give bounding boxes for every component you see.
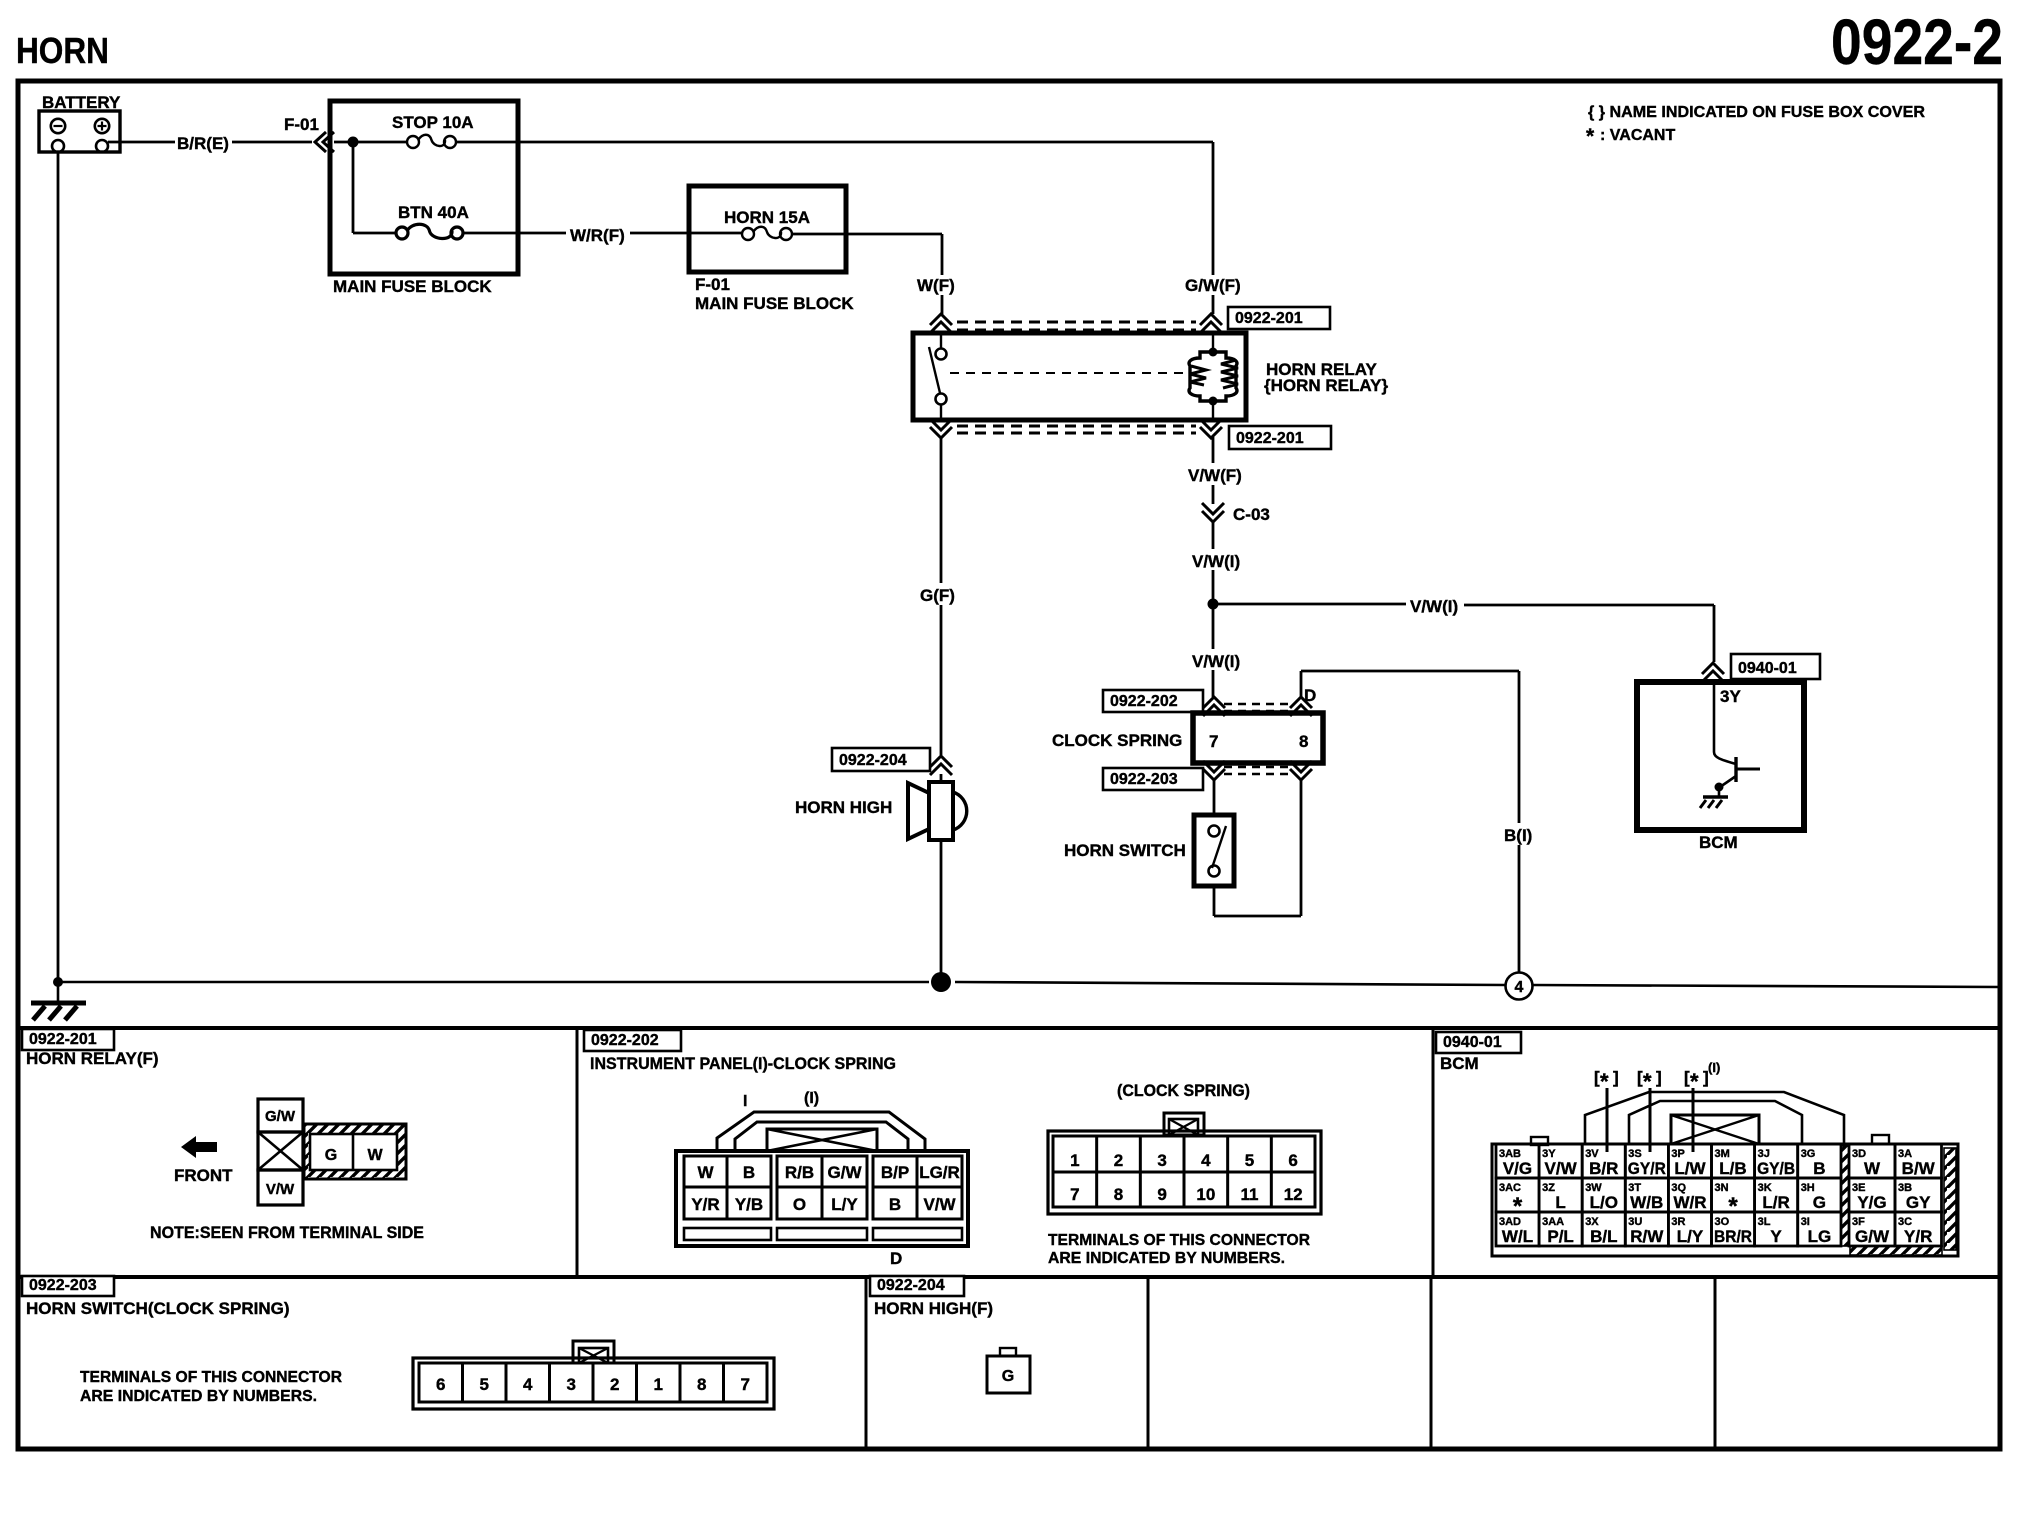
svg-text:MAIN FUSE BLOCK: MAIN FUSE BLOCK [333, 277, 492, 296]
svg-text:3Y: 3Y [1720, 687, 1741, 706]
svg-text:Y/R: Y/R [1904, 1227, 1932, 1246]
svg-text:(I): (I) [1708, 1060, 1720, 1075]
svg-text:CLOCK SPRING: CLOCK SPRING [1052, 731, 1182, 750]
svg-text:INSTRUMENT PANEL(I)-CLOCK SPRI: INSTRUMENT PANEL(I)-CLOCK SPRING [590, 1054, 896, 1073]
svg-text:V/G: V/G [1503, 1159, 1532, 1178]
svg-text:Y: Y [1770, 1227, 1782, 1246]
svg-text:W/B: W/B [1630, 1193, 1663, 1212]
svg-text:B/R: B/R [1589, 1159, 1618, 1178]
svg-text:B(I): B(I) [1504, 826, 1532, 845]
svg-text:10: 10 [1196, 1185, 1215, 1204]
svg-text:L/O: L/O [1590, 1193, 1618, 1212]
svg-text:1: 1 [1070, 1151, 1079, 1170]
svg-text:G/W: G/W [265, 1108, 296, 1125]
svg-text:0922-203: 0922-203 [1110, 771, 1178, 788]
svg-text:6: 6 [1288, 1151, 1297, 1170]
svg-text:I: I [743, 1093, 747, 1110]
svg-text:B: B [889, 1195, 901, 1214]
svg-text:W(F): W(F) [917, 276, 955, 295]
svg-text:0922-202: 0922-202 [591, 1032, 659, 1049]
svg-text:4: 4 [1201, 1151, 1211, 1170]
svg-text:B: B [743, 1163, 755, 1182]
svg-text:HORN RELAY(F): HORN RELAY(F) [26, 1049, 159, 1068]
svg-text:V/W: V/W [1545, 1159, 1578, 1178]
svg-text:]: ] [1613, 1068, 1619, 1087]
svg-text:TERMINALS OF THIS CONNECTOR: TERMINALS OF THIS CONNECTOR [1048, 1232, 1310, 1249]
svg-text:BTN 40A: BTN 40A [398, 203, 469, 222]
svg-text:*: * [1586, 125, 1595, 148]
svg-text:2: 2 [610, 1375, 619, 1394]
svg-text:8: 8 [1114, 1185, 1123, 1204]
svg-text:8: 8 [697, 1375, 706, 1394]
svg-text:FRONT: FRONT [174, 1166, 233, 1185]
svg-text:0922-202: 0922-202 [1110, 693, 1178, 710]
svg-text:G/W(F): G/W(F) [1185, 276, 1241, 295]
svg-text:0922-204: 0922-204 [839, 752, 907, 769]
svg-text:GY: GY [1906, 1193, 1931, 1212]
svg-text:G/W: G/W [828, 1163, 863, 1182]
svg-text:Y/B: Y/B [735, 1195, 763, 1214]
svg-text:(CLOCK SPRING): (CLOCK SPRING) [1117, 1081, 1250, 1100]
svg-text:R/W: R/W [1630, 1227, 1664, 1246]
svg-text:6: 6 [436, 1375, 445, 1394]
svg-text:LG/R: LG/R [919, 1163, 960, 1182]
svg-text:L/R: L/R [1762, 1193, 1789, 1212]
svg-text:4: 4 [523, 1375, 533, 1394]
svg-text:MAIN FUSE BLOCK: MAIN FUSE BLOCK [695, 294, 854, 313]
svg-text:7: 7 [1070, 1185, 1079, 1204]
svg-text:8: 8 [1299, 732, 1308, 751]
svg-text:0922-201: 0922-201 [1235, 310, 1303, 327]
svg-text:{ } NAME INDICATED ON FUSE BOX: { } NAME INDICATED ON FUSE BOX COVER [1588, 104, 1925, 121]
svg-text:9: 9 [1157, 1185, 1166, 1204]
svg-text:W: W [367, 1147, 383, 1164]
svg-text:3L: 3L [1758, 1216, 1771, 1228]
svg-text:W/R(F): W/R(F) [570, 226, 625, 245]
svg-text:0922-201: 0922-201 [1236, 430, 1304, 447]
svg-text:Y/G: Y/G [1857, 1193, 1886, 1212]
svg-text:W: W [697, 1163, 714, 1182]
svg-text:0922-201: 0922-201 [29, 1031, 97, 1048]
svg-text:3N: 3N [1715, 1182, 1729, 1194]
svg-text:3: 3 [1157, 1151, 1166, 1170]
svg-text:3: 3 [567, 1375, 576, 1394]
svg-text:W: W [1864, 1159, 1881, 1178]
svg-text:B: B [1813, 1159, 1825, 1178]
svg-text:: VACANT: : VACANT [1600, 127, 1675, 144]
svg-text:NOTE:SEEN FROM TERMINAL SIDE: NOTE:SEEN FROM TERMINAL SIDE [150, 1223, 424, 1242]
svg-text:2: 2 [1114, 1151, 1123, 1170]
svg-text:W/R: W/R [1673, 1193, 1706, 1212]
svg-text:BCM: BCM [1699, 833, 1738, 852]
svg-text:HORN HIGH(F): HORN HIGH(F) [874, 1299, 993, 1318]
svg-text:HORN SWITCH: HORN SWITCH [1064, 841, 1186, 860]
svg-text:4: 4 [1515, 979, 1524, 996]
svg-text:STOP 10A: STOP 10A [392, 113, 474, 132]
svg-text:F-01: F-01 [284, 115, 319, 134]
svg-text:3Z: 3Z [1542, 1182, 1555, 1194]
svg-text:V/W(I): V/W(I) [1410, 597, 1458, 616]
svg-text:L/Y: L/Y [1677, 1227, 1704, 1246]
svg-text:F-01: F-01 [695, 275, 730, 294]
svg-text:LG: LG [1808, 1227, 1832, 1246]
svg-text:B/R(E): B/R(E) [177, 134, 229, 153]
svg-text:V/W(I): V/W(I) [1192, 652, 1240, 671]
svg-text:G: G [325, 1147, 337, 1164]
svg-text:BCM: BCM [1440, 1054, 1479, 1073]
svg-text:B/W: B/W [1902, 1159, 1936, 1178]
svg-text:L/W: L/W [1674, 1159, 1706, 1178]
svg-text:O: O [793, 1195, 806, 1214]
svg-text:D: D [1304, 686, 1316, 705]
svg-text:ARE INDICATED BY NUMBERS.: ARE INDICATED BY NUMBERS. [1048, 1250, 1285, 1267]
svg-text:0922-2: 0922-2 [1831, 6, 2003, 78]
svg-text:HORN SWITCH(CLOCK SPRING): HORN SWITCH(CLOCK SPRING) [26, 1299, 289, 1318]
svg-text:V/W: V/W [266, 1181, 295, 1198]
svg-text:1: 1 [654, 1375, 663, 1394]
svg-text:HORN: HORN [16, 30, 109, 71]
svg-text:*: * [1728, 1193, 1738, 1220]
svg-text:G: G [1813, 1193, 1826, 1212]
svg-text:Y/R: Y/R [691, 1195, 719, 1214]
svg-text:B/L: B/L [1590, 1227, 1617, 1246]
svg-text:W/L: W/L [1502, 1227, 1533, 1246]
svg-text:B/P: B/P [881, 1163, 909, 1182]
svg-text:GY/R: GY/R [1628, 1159, 1666, 1178]
svg-text:V/W: V/W [923, 1195, 956, 1214]
svg-text:5: 5 [1245, 1151, 1254, 1170]
svg-text:L/Y: L/Y [831, 1195, 858, 1214]
svg-text:BATTERY: BATTERY [42, 93, 121, 112]
svg-text:7: 7 [1209, 732, 1218, 751]
svg-text:ARE INDICATED BY NUMBERS.: ARE INDICATED BY NUMBERS. [80, 1388, 317, 1405]
svg-text:L: L [1555, 1193, 1565, 1212]
svg-text:V/W(F): V/W(F) [1188, 466, 1242, 485]
svg-text:L/B: L/B [1719, 1159, 1746, 1178]
svg-text:V/W(I): V/W(I) [1192, 552, 1240, 571]
svg-text:D: D [890, 1249, 902, 1268]
svg-text:0940-01: 0940-01 [1738, 660, 1797, 677]
svg-text:P/L: P/L [1547, 1227, 1573, 1246]
svg-text:C-03: C-03 [1233, 505, 1270, 524]
svg-text:HORN HIGH: HORN HIGH [795, 798, 892, 817]
svg-text:R/B: R/B [785, 1163, 814, 1182]
svg-text:11: 11 [1241, 1185, 1259, 1204]
svg-text:7: 7 [741, 1375, 750, 1394]
svg-text:HORN 15A: HORN 15A [724, 208, 810, 227]
svg-text:G: G [1002, 1368, 1014, 1385]
svg-text:BR/R: BR/R [1714, 1227, 1752, 1246]
svg-text:(I): (I) [804, 1090, 819, 1107]
svg-text:0922-203: 0922-203 [29, 1277, 97, 1294]
svg-text:G(F): G(F) [920, 586, 955, 605]
svg-text:G/W: G/W [1855, 1227, 1890, 1246]
svg-text:TERMINALS OF THIS CONNECTOR: TERMINALS OF THIS CONNECTOR [80, 1369, 342, 1386]
svg-text:0940-01: 0940-01 [1443, 1034, 1502, 1051]
svg-text:{HORN RELAY}: {HORN RELAY} [1264, 376, 1388, 395]
svg-text:0922-204: 0922-204 [877, 1277, 945, 1294]
svg-text:5: 5 [480, 1375, 489, 1394]
svg-text:GY/B: GY/B [1757, 1159, 1795, 1178]
svg-text:]: ] [1656, 1068, 1662, 1087]
svg-text:12: 12 [1284, 1185, 1303, 1204]
